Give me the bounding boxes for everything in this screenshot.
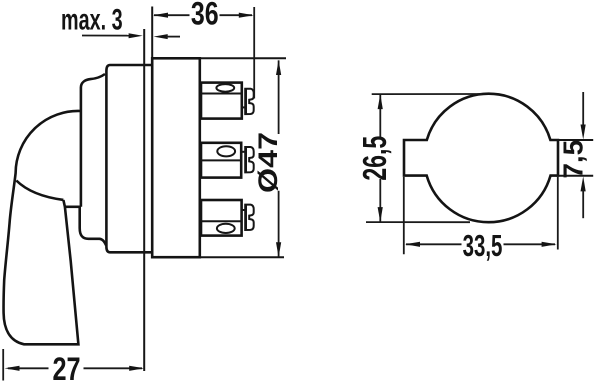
slot top extension line <box>556 139 593 141</box>
lever cap bottom stub <box>65 206 80 209</box>
terminal T1 box <box>201 83 242 119</box>
svg-text:36: 36 <box>191 0 219 32</box>
svg-text:26,5: 26,5 <box>357 136 394 181</box>
screw S1 (side view, slotted head) <box>245 89 254 114</box>
terminal T2 slot (oval) <box>217 146 235 156</box>
collar vertical front face <box>80 111 81 228</box>
bezel (front escutcheon) <box>106 65 152 252</box>
dimension 33,5 right extension line <box>557 177 559 250</box>
panel rear line / 36 left extension <box>151 7 153 59</box>
terminal T2 box <box>201 143 241 178</box>
terminal T2 divider <box>201 159 241 161</box>
lever (operating handle, side view) <box>4 111 81 344</box>
housing top edge extension (Ø47) <box>200 57 286 59</box>
dimension Ø47 line <box>278 60 280 256</box>
screw S2 <box>245 147 254 172</box>
terminal T1 slot (oval) <box>216 84 234 92</box>
terminal T3 slot (oval) <box>217 224 235 233</box>
dimension 33,5 arrows <box>405 242 420 247</box>
screw S2 shank tick <box>242 151 246 153</box>
collar upper ogee (knob base, top) <box>81 74 105 111</box>
dimension max.3 right arrow <box>154 34 168 39</box>
svg-text:27: 27 <box>52 352 80 384</box>
dimension 7,5 upper arrow line <box>582 92 584 125</box>
dimension 33,5 left extension line <box>403 177 405 254</box>
panel front line <box>143 29 145 371</box>
dimension 26,5 bottom extension line <box>366 221 470 223</box>
screw S3 <box>245 205 254 230</box>
dimension 26,5 arrows <box>378 94 383 109</box>
panel cutout outline (circle with side slots) <box>404 94 558 223</box>
screw S3 shank tick <box>242 209 246 211</box>
screw S1 shank tick <box>242 106 246 108</box>
dimension 36 right extension line <box>253 7 255 99</box>
dimension 27 arrows <box>5 366 20 371</box>
dimension 36 arrows <box>153 13 168 18</box>
terminal T3 box <box>201 200 242 236</box>
slot bottom extension line <box>556 175 593 177</box>
housing (main switch body) <box>152 58 200 257</box>
svg-text:33,5: 33,5 <box>463 227 503 262</box>
terminal T1 divider <box>201 93 242 95</box>
dimension Ø47 arrows <box>276 60 281 75</box>
dimension 7,5 lower arrow line <box>581 176 586 191</box>
dimension 26,5 top extension line <box>372 93 482 95</box>
svg-text:max. 3: max. 3 <box>61 4 123 37</box>
svg-text:Ø47: Ø47 <box>254 132 284 193</box>
dimension 36 line <box>154 14 252 16</box>
dimension 33,5 line <box>406 243 555 245</box>
terminal T3 divider <box>201 220 242 222</box>
dimension 26,5 line <box>379 95 381 222</box>
dimension 27 left extension line <box>2 349 4 381</box>
housing bottom edge extension (Ø47) <box>200 256 284 258</box>
dimension 27 line <box>8 367 142 369</box>
lever chord line (knob cap separation) <box>16 181 63 200</box>
svg-text:7,5: 7,5 <box>557 140 588 179</box>
collar lower ogee (knob base, bottom) <box>80 228 107 246</box>
dimension max.3 leader line with arrow <box>82 35 130 37</box>
